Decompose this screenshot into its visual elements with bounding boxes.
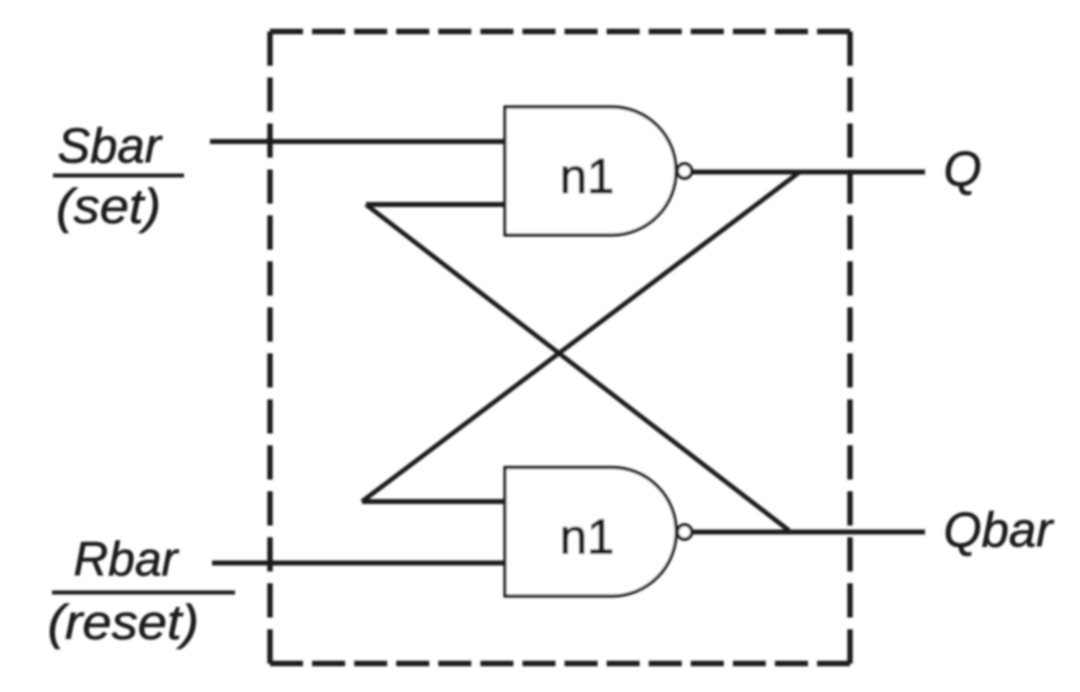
svg-text:(reset): (reset): [48, 596, 200, 650]
svg-text:n1: n1: [560, 150, 615, 204]
wire cross feedback: top NAND output to bottom NAND upper input: [362, 173, 799, 502]
dashed module boundary box: [270, 32, 850, 664]
svg-text:Rbar: Rbar: [74, 534, 180, 587]
svg-text:n1: n1: [560, 511, 615, 565]
NAND gate n1 (top) inversion bubble: [677, 164, 691, 178]
svg-text:Qbar: Qbar: [944, 504, 1055, 558]
svg-text:Sbar: Sbar: [58, 120, 163, 174]
svg-text:Q: Q: [944, 143, 982, 197]
overline bar under Rbar: [52, 591, 235, 595]
wire bottom NAND output to Qbar: [691, 530, 925, 535]
overline bar under Sbar: [53, 174, 184, 178]
NAND gate n1 (bottom) inversion bubble: [677, 525, 691, 539]
wire stub into top NAND lower input: [366, 202, 505, 207]
NAND gate n1 (bottom) body: [505, 468, 676, 597]
wire Sbar input to top NAND upper input: [210, 139, 505, 144]
wire cross feedback: bottom NAND output to top NAND lower input: [366, 205, 789, 531]
wire stub into bottom NAND upper input: [362, 499, 505, 504]
wire Rbar input to bottom NAND lower input: [212, 561, 505, 566]
NAND gate n1 (top) body: [505, 107, 676, 235]
svg-text:(set): (set): [56, 180, 161, 234]
wire top NAND output to Q: [691, 170, 925, 175]
